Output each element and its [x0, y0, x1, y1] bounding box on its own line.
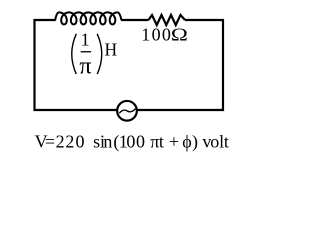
svg-text:100: 100	[141, 25, 172, 45]
svg-text:H: H	[105, 39, 118, 59]
svg-text:1: 1	[81, 30, 90, 50]
svg-text:V=220sin(100πt+ϕ)volt: V=220sin(100πt+ϕ)volt	[35, 131, 229, 152]
svg-text:π: π	[79, 54, 91, 80]
svg-text:Ω: Ω	[171, 26, 188, 45]
